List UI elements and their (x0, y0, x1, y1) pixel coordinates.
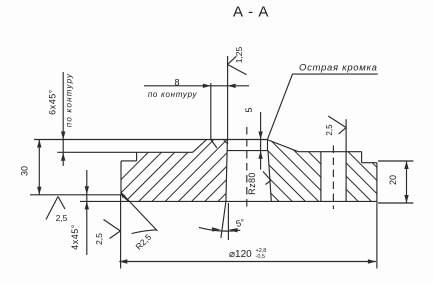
svg-text:1,25: 1,25 (234, 46, 244, 63)
roughness 2.5 top right text (325, 124, 334, 136)
bolt hole left wall (320, 152, 322, 202)
boss left chamfer 6x45 (193, 140, 207, 153)
ostraya kromka text (299, 63, 378, 74)
roughness 2.5 bottom left text (56, 213, 68, 223)
hole centerline (246, 127, 248, 207)
roughness 2.5 on left edge text rotated (94, 233, 104, 245)
dim 30 text (20, 166, 30, 176)
dim 20 top ext line (378, 160, 413, 162)
R2.5 leader (121, 192, 158, 231)
groove tick right (224, 140, 228, 144)
svg-text:5°: 5° (235, 217, 246, 229)
svg-text:⌀120: ⌀120 (229, 249, 252, 260)
central hole left wall (226, 140, 228, 202)
dim 20 text rotated (388, 175, 398, 185)
dim 5deg arc (199, 227, 240, 231)
bottom ext line for 30 dim (30, 194, 121, 196)
dim 5deg text (235, 217, 246, 229)
bolt hole right wall extension up for roughness (345, 119, 347, 152)
dim 5 top arrow (258, 132, 262, 140)
R2.5 text rotated (133, 232, 153, 252)
svg-text:20: 20 (388, 175, 398, 185)
dim 30 bottom arrow (37, 187, 41, 195)
roughness Rz80 check on hole wall (263, 172, 271, 181)
R2.5 leader arrow (121, 192, 126, 198)
svg-text:2,5: 2,5 (325, 124, 334, 136)
dim 20 top arrow (404, 161, 408, 169)
hatching left body (99, 139, 294, 202)
dim dia120 left arrow (119, 259, 127, 263)
top surface line H1 (34, 139, 267, 141)
bolt hole right wall (345, 152, 347, 202)
hole right wall (268, 151, 271, 202)
groove notch vertical (136, 152, 138, 161)
dim 8 right arrow (228, 84, 236, 88)
chamfer 6x45 leader line (62, 72, 64, 166)
dim 5deg right arrow (229, 228, 238, 232)
dim dia120 right arrow (368, 259, 376, 263)
dim 20 bottom ext line (378, 202, 413, 204)
roughness 2.5 top right check (328, 116, 346, 128)
dim 8 ext line right (up to roughness 1.25) (227, 56, 229, 140)
bottom surface line (80, 200, 377, 202)
svg-text:по контуру: по контуру (65, 73, 74, 127)
dim 20 line (406, 161, 408, 203)
bolt hole centerline (332, 146, 334, 210)
text po konturu rotated (65, 73, 74, 127)
left edge of body (120, 161, 122, 194)
groove notch floor (121, 160, 137, 162)
roughness 2.5 on left edge check (104, 220, 121, 232)
extension line right for dia120 (376, 203, 378, 268)
svg-text:Rz80: Rz80 (247, 172, 257, 195)
R2.5 text shelf line (132, 230, 157, 234)
ostraya kromka leader (268, 74, 378, 139)
hole recess right vertical edge (267, 139, 269, 150)
svg-text:2,5: 2,5 (94, 233, 104, 245)
dim 8 text (174, 78, 179, 88)
svg-text:по контуру: по контуру (148, 90, 198, 99)
flange underside line H2 (57, 151, 192, 153)
dim 5 line (260, 112, 262, 170)
dim 30 top arrow (37, 140, 41, 148)
svg-text:А - А: А - А (233, 4, 269, 21)
hatching right body (203, 139, 411, 202)
dim 4x45 upper arrow (85, 186, 89, 194)
dim 4x45 text rotated (70, 224, 80, 250)
svg-text:2,5: 2,5 (56, 213, 68, 223)
dim 8 line (144, 85, 249, 87)
dim dia120 line (119, 261, 376, 263)
dim 8 ext line left (210, 83, 212, 140)
central hole left wall extension below (slanted, 5deg) (221, 201, 226, 238)
bottom-left chamfer 4x45 (121, 194, 129, 201)
right surface line (298, 151, 361, 153)
svg-text:30: 30 (20, 166, 30, 176)
right step surface (362, 162, 377, 164)
svg-text:6х45°: 6х45° (48, 89, 58, 115)
dim 4x45 line (86, 170, 88, 255)
dim dia120 text (229, 248, 266, 260)
svg-text:R2,5: R2,5 (133, 232, 153, 252)
dim 20 bottom arrow (404, 195, 408, 203)
hole ledge (227, 150, 267, 152)
dim 5 text rotated (244, 107, 254, 112)
svg-text:4х45°: 4х45° (70, 224, 80, 250)
chamfer 6x45 lower arrow up (61, 153, 65, 161)
vertical reference line for 5deg (227, 203, 229, 240)
svg-text:-0,5: -0,5 (256, 254, 265, 260)
svg-text:Острая кромка: Острая кромка (299, 63, 378, 74)
extension line left for dia120 (120, 194, 122, 268)
chamfer 6x45 leader arrow down (61, 132, 65, 140)
groove tick left (211, 140, 217, 148)
dim 4x45 lower arrow (85, 201, 89, 209)
dim 30 line (38, 140, 40, 195)
roughness 1.25 text rotated (234, 46, 244, 63)
roughness Rz80 text rotated (247, 172, 257, 195)
dim 5 bottom arrow (258, 151, 262, 159)
right step vertical (361, 152, 363, 163)
right edge of part (376, 163, 378, 204)
text po konturu horizontal (148, 90, 198, 99)
section title A-A (233, 4, 269, 21)
roughness 2.5 bottom left (under 30 ext line) (46, 197, 58, 220)
dim 5deg left arrow (212, 227, 221, 231)
svg-text:5: 5 (244, 107, 254, 112)
text 6x45 rotated (48, 89, 58, 115)
roughness 1.25 check (228, 56, 237, 64)
dim 8 left arrow (203, 84, 211, 88)
boss right shoulder slope (267, 140, 298, 152)
svg-text:8: 8 (174, 78, 179, 88)
